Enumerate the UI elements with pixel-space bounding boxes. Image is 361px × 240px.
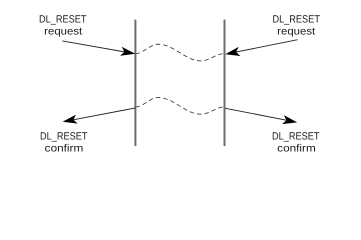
station line 1 (left provider boundary)	[134, 20, 136, 146]
svg-text:confirm: confirm	[277, 142, 316, 154]
arrow: DL_RESET request (top-right, into station 2)	[224, 40, 297, 59]
dashed message curve (top, request propagation)	[136, 44, 225, 61]
svg-text:DL_RESET: DL_RESET	[39, 13, 87, 25]
label: DL_RESET request (top-left)	[39, 13, 87, 37]
svg-text:DL_RESET: DL_RESET	[272, 13, 320, 25]
svg-text:request: request	[44, 25, 82, 37]
svg-text:DL_RESET: DL_RESET	[272, 131, 320, 143]
svg-text:request: request	[277, 25, 315, 37]
svg-text:DL_RESET: DL_RESET	[40, 131, 88, 143]
label: DL_RESET request (top-right)	[272, 13, 320, 37]
label: DL_RESET confirm (bottom-right)	[272, 131, 320, 155]
dashed message curve (bottom, confirm propagation)	[136, 98, 225, 115]
label: DL_RESET confirm (bottom-left)	[40, 131, 88, 155]
station line 2 (right provider boundary)	[224, 20, 226, 146]
arrow: DL_RESET confirm (bottom-left, out of station 1)	[62, 108, 135, 126]
arrow: DL_RESET request (top-left, into station 1)	[62, 41, 136, 58]
arrow: DL_RESET confirm (bottom-right, out of station 2)	[225, 108, 298, 127]
svg-text:confirm: confirm	[45, 142, 84, 154]
text layer wrapper	[39, 13, 320, 154]
